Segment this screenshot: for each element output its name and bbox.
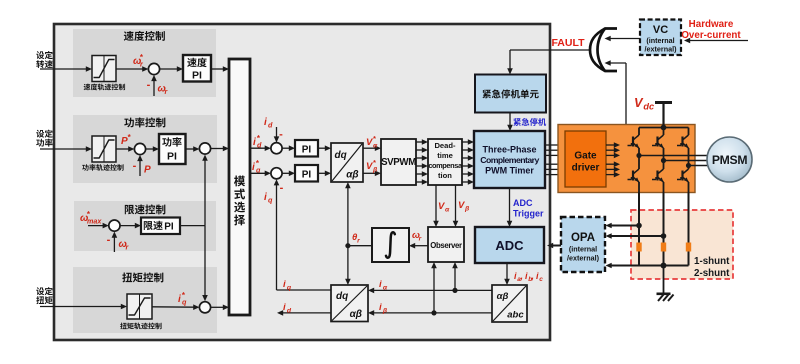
block dq to alpha-beta transform xyxy=(331,143,363,182)
wire theta to dq transform (down) xyxy=(345,246,351,285)
block emergency stop unit xyxy=(475,75,546,113)
block PI q xyxy=(295,165,318,182)
wire Vbeta* to SVPWM xyxy=(363,171,381,177)
svg-text:Hardware: Hardware xyxy=(689,19,734,30)
svg-text:-: - xyxy=(280,182,284,194)
svg-text:PI: PI xyxy=(302,144,312,155)
block gate driver xyxy=(565,131,606,187)
title limit control xyxy=(125,204,166,214)
wire phase B to motor xyxy=(664,160,709,162)
node theta_r xyxy=(345,243,350,248)
wire Vbeta down to observer xyxy=(453,185,459,227)
label hardware over-current xyxy=(681,19,741,41)
IGBT Q2 xyxy=(628,169,640,182)
wire ramp to power summing xyxy=(116,146,134,152)
wire Valpha* to SVPWM xyxy=(363,145,381,151)
label Vbeta* xyxy=(366,158,378,173)
label ADC trigger (blue) xyxy=(513,198,544,219)
wire i_alpha to observer xyxy=(452,262,458,290)
wire ramp to speed summing xyxy=(116,66,148,72)
svg-text:time: time xyxy=(437,151,453,160)
svg-text:Trigger: Trigger xyxy=(513,209,544,219)
svg-text:abc: abc xyxy=(507,310,524,321)
svg-text:r: r xyxy=(419,235,422,242)
block limit PI xyxy=(141,218,180,235)
wire PI q to dq transform xyxy=(318,171,331,177)
wire theta to dq transform (up) xyxy=(345,182,351,246)
IGBT Q4 xyxy=(652,169,664,182)
summing junction iq xyxy=(271,168,282,179)
label set speed xyxy=(36,51,53,68)
wire torque to mode selector xyxy=(211,305,229,311)
label omega_r* xyxy=(133,53,144,69)
svg-text:i: i xyxy=(253,137,256,148)
svg-text:q: q xyxy=(268,195,273,204)
block SVPWM xyxy=(381,139,416,185)
summing junction limit xyxy=(109,220,120,231)
label Vbeta xyxy=(458,200,470,212)
speed trajectory ramp block xyxy=(92,56,116,82)
wire limit to torque summing (down) xyxy=(202,226,208,302)
svg-text:-: - xyxy=(133,160,137,172)
IGBT Q5 xyxy=(677,135,689,148)
wire limit summing to limit PI xyxy=(120,223,141,229)
wire limit to power summing (up) xyxy=(202,155,208,226)
block VC comparator xyxy=(640,20,681,56)
svg-text:compensa: compensa xyxy=(428,161,463,170)
wire P feedback xyxy=(137,155,143,176)
title power control xyxy=(124,117,165,127)
svg-text:PI: PI xyxy=(167,151,177,163)
dc bus V_dc xyxy=(655,103,672,128)
wire omega_max input xyxy=(88,223,109,229)
block OPA amplifier xyxy=(561,217,605,272)
svg-text:PI: PI xyxy=(302,169,312,180)
wire summing to power PI xyxy=(146,146,159,152)
label set power xyxy=(36,130,53,147)
label emergency stop (blue) xyxy=(513,118,546,126)
label set torque xyxy=(36,287,53,304)
wire sense A to OPA xyxy=(606,223,640,229)
svg-text:Observer: Observer xyxy=(430,241,462,250)
svg-text:V: V xyxy=(438,201,445,212)
svg-text:SVPWM: SVPWM xyxy=(381,157,416,168)
node phase B tap xyxy=(661,158,666,163)
block integrator xyxy=(372,228,409,262)
title torque control xyxy=(122,272,163,282)
wire summing to speed PI xyxy=(160,66,183,72)
wire VC to OR gate xyxy=(605,36,641,42)
main control-box frame xyxy=(54,24,550,340)
label minus power xyxy=(133,160,137,172)
wires PWM timer to gate driver (6) xyxy=(545,142,564,177)
svg-text:(internal: (internal xyxy=(569,245,597,254)
block inverter power stage xyxy=(558,125,695,193)
svg-text:P: P xyxy=(144,165,151,176)
IGBT Q3 xyxy=(652,135,664,148)
label minus speed xyxy=(147,79,151,91)
wire PI d to dq transform xyxy=(318,145,331,151)
svg-text:i: i xyxy=(264,117,267,128)
svg-text:Over-current: Over-current xyxy=(681,30,741,41)
svg-text:i: i xyxy=(252,162,255,173)
label omega_r feedback xyxy=(158,84,169,96)
svg-text:FAULT: FAULT xyxy=(551,37,585,49)
label minus iq xyxy=(280,182,284,194)
wire Valpha down to observer xyxy=(433,185,439,227)
label minus limit xyxy=(107,234,111,246)
wire observer to integrator xyxy=(409,243,428,249)
label id feedback xyxy=(264,117,273,129)
svg-text:-: - xyxy=(147,79,151,91)
summing junction torque xyxy=(199,302,210,313)
wire top rail xyxy=(639,127,689,129)
svg-text:,: , xyxy=(519,271,523,281)
node sense B xyxy=(661,233,667,239)
IGBT Q6 xyxy=(677,169,689,182)
wire set-power input xyxy=(40,146,92,152)
summing junction id xyxy=(271,143,282,154)
panel power control xyxy=(73,115,217,183)
svg-text:V: V xyxy=(366,161,373,172)
svg-text:PI: PI xyxy=(192,70,202,82)
panel torque control xyxy=(73,267,217,333)
label Valpha xyxy=(438,201,450,213)
svg-text:VC: VC xyxy=(653,24,668,36)
svg-text:-: - xyxy=(279,129,283,141)
wire OPA to ADC xyxy=(547,243,561,249)
shunt resistor B xyxy=(661,243,666,252)
wire ADC to abc transform xyxy=(504,263,510,285)
block alpha-beta to abc transform xyxy=(492,285,527,322)
label torque trajectory xyxy=(120,323,161,330)
wire d summing to PI xyxy=(282,145,295,151)
summing junction speed xyxy=(148,63,159,74)
label minus id xyxy=(279,129,283,141)
svg-text:,: , xyxy=(530,271,534,281)
block power PI xyxy=(159,134,186,164)
motor PMSM xyxy=(707,137,752,182)
svg-text:αβ: αβ xyxy=(350,309,362,320)
label P feedback xyxy=(144,165,151,176)
svg-text:Three-Phase: Three-Phase xyxy=(482,145,536,155)
block three-phase PWM timer xyxy=(474,131,545,188)
wires SVPWM to dead-time (6) xyxy=(416,139,428,185)
wire leg C xyxy=(688,128,690,193)
wire id feedback stub xyxy=(274,127,280,143)
block ADC xyxy=(475,227,544,263)
wire to ground xyxy=(663,266,665,294)
wire leg A to shunt xyxy=(638,193,640,266)
node sense A xyxy=(636,223,642,229)
svg-text:/external): /external) xyxy=(567,254,600,263)
wire set-torque input xyxy=(40,304,127,310)
svg-text:dq: dq xyxy=(334,150,346,161)
label FAULT xyxy=(551,37,585,49)
node i_alpha tap xyxy=(452,288,457,293)
svg-text:i: i xyxy=(283,302,286,313)
wire mode to d summing xyxy=(250,145,271,151)
power trajectory ramp block xyxy=(92,136,116,162)
wire leg B to shunt xyxy=(663,193,665,266)
label speed trajectory xyxy=(84,84,125,91)
block dead-time compensation xyxy=(428,139,463,185)
label iq out xyxy=(283,279,292,291)
svg-text:PI: PI xyxy=(164,222,174,233)
ground xyxy=(657,294,674,301)
svg-text:1-shunt: 1-shunt xyxy=(694,256,730,267)
svg-text:V: V xyxy=(458,200,465,211)
shunt resistor C xyxy=(686,243,691,252)
svg-text:i: i xyxy=(379,302,382,313)
wire ADC trigger xyxy=(507,188,513,227)
block dq to alpha-beta (feedback) xyxy=(331,285,368,322)
node phase C tap xyxy=(686,163,691,168)
svg-text:PMSM: PMSM xyxy=(712,153,748,167)
wire mode to q summing xyxy=(250,171,271,177)
OR gate fault combiner xyxy=(590,29,617,72)
svg-text:V: V xyxy=(366,137,373,148)
svg-text:dq: dq xyxy=(336,291,348,302)
panel speed-limit control xyxy=(74,201,216,251)
node phase A tap xyxy=(636,153,641,158)
label omega_max* xyxy=(80,210,102,226)
svg-text:/external): /external) xyxy=(645,45,678,54)
label i_alpha xyxy=(379,279,388,291)
svg-text:Dead-: Dead- xyxy=(434,141,456,150)
label ia ib ic xyxy=(514,271,543,283)
svg-text:tion: tion xyxy=(438,171,452,180)
wire phase C to motor xyxy=(689,165,709,167)
wire i_alpha xyxy=(368,288,492,294)
title speed control xyxy=(124,31,165,41)
wire speed PI to mode selector xyxy=(211,66,229,72)
svg-text:dc: dc xyxy=(643,101,654,111)
svg-text:i: i xyxy=(283,279,286,290)
svg-text:OPA: OPA xyxy=(571,232,595,244)
label iq feedback xyxy=(264,192,273,204)
svg-text:d: d xyxy=(268,120,273,129)
wire power PI to second summing xyxy=(186,146,200,152)
summing junction power xyxy=(134,143,145,154)
svg-text:2-shunt: 2-shunt xyxy=(694,268,730,279)
label i_beta xyxy=(379,302,388,314)
wire power out to mode selector xyxy=(211,146,229,152)
svg-text:PWM Timer: PWM Timer xyxy=(485,166,534,176)
svg-text:ADC: ADC xyxy=(495,238,524,253)
svg-text:r: r xyxy=(357,237,360,244)
wire i_beta to observer xyxy=(431,262,437,313)
block observer xyxy=(428,227,464,262)
wire limit feedback xyxy=(112,232,118,253)
wires dead-time to PWM timer (6) xyxy=(462,139,474,185)
IGBT Q1 xyxy=(628,135,640,148)
svg-text:αβ: αβ xyxy=(497,291,509,302)
svg-text:αβ: αβ xyxy=(346,169,358,180)
label omega_r observer xyxy=(412,230,422,242)
wire inverter sense to OR gate xyxy=(605,60,627,124)
block speed PI xyxy=(183,55,211,82)
node bottom bus junction xyxy=(661,263,667,269)
label power trajectory xyxy=(82,164,123,171)
svg-text:β: β xyxy=(382,307,388,314)
panel speed control xyxy=(73,29,216,97)
svg-text:Gate: Gate xyxy=(574,151,597,162)
torque trajectory ramp block xyxy=(127,294,152,319)
svg-text:-: - xyxy=(107,234,111,246)
svg-text:*: * xyxy=(373,158,376,167)
wire q summing to PI xyxy=(282,171,295,177)
svg-text:Complementary: Complementary xyxy=(480,155,539,165)
wire hardware over-current to VC xyxy=(684,38,748,44)
wire omega_r feedback xyxy=(151,75,157,96)
wire limit PI output xyxy=(180,225,205,227)
label iq* current xyxy=(252,159,261,175)
wire ramp to torque summing xyxy=(152,304,199,310)
wire integrator to theta node xyxy=(348,245,372,247)
svg-text:i: i xyxy=(178,294,181,305)
shunt resistor A xyxy=(636,243,641,252)
label 1-shunt 2-shunt xyxy=(694,256,730,279)
svg-text:i: i xyxy=(379,279,382,290)
label omega_r limit xyxy=(119,239,130,251)
wire set-speed input xyxy=(40,66,92,72)
svg-text:c: c xyxy=(539,276,543,283)
svg-text:driver: driver xyxy=(572,163,600,174)
wire bottom bus xyxy=(606,263,689,269)
wire leg C to shunt xyxy=(688,193,690,266)
node i_beta tap xyxy=(431,310,436,315)
wire FAULT to emergency stop unit xyxy=(507,50,589,75)
wire sense B to OPA xyxy=(606,233,664,239)
shunt sensing box xyxy=(631,210,733,279)
node dc bus junction xyxy=(661,125,667,131)
summing junction power out xyxy=(199,143,210,154)
wire leg B xyxy=(663,128,665,193)
label theta_r xyxy=(352,232,360,244)
wire iq feedback to summing xyxy=(274,179,331,290)
label id* xyxy=(253,134,262,150)
wire id out stub xyxy=(277,310,331,316)
block PI d xyxy=(295,140,318,157)
label P* xyxy=(121,133,132,147)
label iq* torque xyxy=(178,291,187,307)
wire leg A xyxy=(638,128,640,193)
svg-text:ADC: ADC xyxy=(513,198,533,208)
wire emergency stop to PWM timer xyxy=(507,113,513,132)
label V_dc xyxy=(634,95,654,111)
svg-text:β: β xyxy=(372,166,378,173)
svg-text:*: * xyxy=(373,134,376,143)
label id out xyxy=(283,302,292,314)
wire i_beta xyxy=(368,310,492,316)
label Valpha* xyxy=(366,134,378,149)
svg-text:i: i xyxy=(264,192,267,203)
wires gate driver to IGBTs (6) xyxy=(606,142,620,177)
block mode selector xyxy=(229,59,250,315)
svg-text:β: β xyxy=(464,205,470,212)
wire phase A to motor xyxy=(639,155,708,157)
